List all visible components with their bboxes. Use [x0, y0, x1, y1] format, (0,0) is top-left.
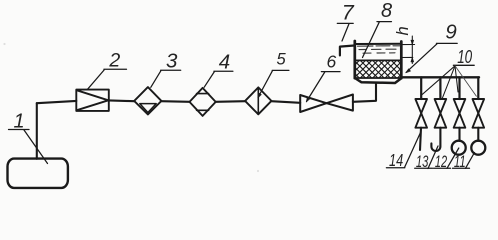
- manifold pipe: [401, 76, 479, 78]
- paper specks: [3, 43, 5, 45]
- svg-text:2: 2: [108, 49, 120, 71]
- drop stem 2: [439, 77, 441, 99]
- tank T1: [8, 159, 68, 188]
- outlet 14 plain stem: [420, 128, 421, 150]
- svg-text:9: 9: [445, 20, 456, 43]
- callout 4 leader: [204, 71, 233, 87]
- svg-text:13: 13: [416, 152, 429, 171]
- valve V6: [300, 95, 353, 113]
- overflow pipe 7: [340, 46, 354, 56]
- callout 11 leader: [453, 153, 475, 169]
- water shading dashes: [358, 46, 401, 53]
- saturator vessel wall right: [400, 42, 403, 79]
- svg-text:4: 4: [219, 50, 230, 73]
- callout 6 leader with arrow: [306, 72, 340, 102]
- drop stem 3: [458, 77, 460, 99]
- drop stem 1: [420, 77, 422, 99]
- callout 9 leader with arrow: [406, 43, 458, 72]
- burner nozzle 12 circle: [452, 141, 466, 155]
- svg-text:10: 10: [457, 47, 472, 67]
- valve V10b: [435, 99, 447, 128]
- svg-text:8: 8: [381, 0, 392, 22]
- dimension h line: [411, 36, 413, 64]
- svg-text:5: 5: [277, 51, 287, 69]
- dimension h extension line upper: [401, 44, 415, 46]
- outlet 12 stem: [458, 128, 460, 141]
- dimension arrowheads: [411, 40, 414, 44]
- saturator vessel wall left: [353, 41, 356, 78]
- callout 7 leader: [337, 23, 353, 41]
- svg-text:6: 6: [327, 52, 337, 72]
- pump U2: [76, 90, 109, 111]
- outlet 11 stem: [477, 128, 479, 141]
- callout 5 leader with arrow: [258, 70, 289, 98]
- valve V10d: [473, 99, 485, 128]
- drop stem 4: [477, 77, 479, 99]
- callout 1 leader: [9, 130, 48, 164]
- svg-text:11: 11: [454, 152, 466, 171]
- callout 8 leader: [363, 22, 392, 58]
- callout 2 leader: [88, 69, 127, 89]
- wire segment B: [109, 99, 135, 102]
- outlet 13 J-hook: [431, 128, 440, 151]
- wire segment E: [271, 101, 300, 103]
- dryer F4: [190, 88, 216, 116]
- svg-text:14: 14: [389, 150, 403, 170]
- wire riser from tank: [36, 103, 38, 159]
- svg-text:1: 1: [14, 111, 25, 133]
- water level line: [356, 43, 401, 45]
- callout 14 leader: [386, 133, 420, 168]
- crosshatch: [355, 61, 401, 78]
- filter F3: [134, 87, 161, 114]
- callout 3 leader: [151, 70, 181, 87]
- svg-text:h: h: [394, 26, 412, 35]
- valve V10a: [415, 99, 427, 128]
- wire main line segment A: [37, 101, 77, 103]
- callout 12 leader: [434, 148, 459, 168]
- callout 10 leaders fan: [422, 65, 477, 98]
- wire segment D: [216, 100, 246, 103]
- filter F5: [245, 87, 271, 114]
- vessel bottom funnel: [355, 78, 402, 83]
- svg-text:7: 7: [342, 0, 355, 24]
- callout 13 leader: [415, 146, 438, 169]
- valve V10c: [454, 99, 466, 128]
- coke layer 8 hatched block: [355, 60, 401, 78]
- wire segment C: [161, 100, 190, 103]
- wire segment F valve to saturator drain: [353, 83, 376, 102]
- dimension h extension line lower: [401, 56, 413, 58]
- svg-text:12: 12: [435, 152, 448, 171]
- burner nozzle 11 circle: [471, 141, 485, 155]
- svg-text:3: 3: [166, 49, 178, 72]
